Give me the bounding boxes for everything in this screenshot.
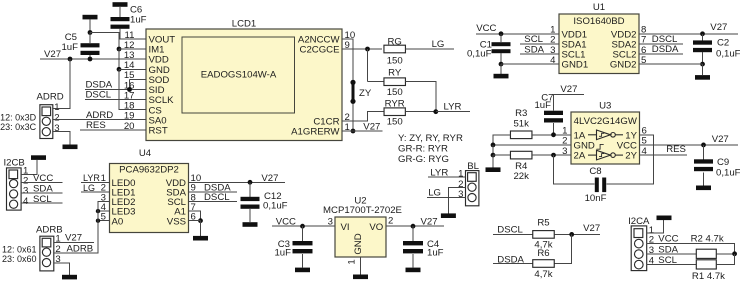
net V27 stub above C7 (554, 84, 585, 111)
wire A1 to VSS (189, 211, 201, 221)
svg-text:2: 2 (54, 113, 59, 124)
net LG wire from RG (406, 39, 455, 50)
net RES wire to pin 20 RST (80, 120, 146, 131)
svg-text:V27: V27 (261, 173, 278, 184)
capacitor C7 1uF (534, 92, 563, 135)
capacitor C4 1uF (403, 226, 444, 259)
svg-text:0,1uF: 0,1uF (467, 49, 492, 60)
net LYR wire (436, 101, 470, 112)
wire gnd vertical (492, 145, 494, 155)
svg-text:LCD1: LCD1 (232, 18, 257, 29)
net LYR wire to BL pin1 (428, 168, 466, 179)
svg-text:MCP1700T-2702E: MCP1700T-2702E (323, 205, 402, 216)
svg-text:R3: R3 (515, 108, 527, 119)
svg-text:RST: RST (149, 126, 168, 137)
capacitor C6 1uF (111, 5, 147, 29)
U4 pin 2 LED1 (101, 183, 136, 199)
label LCD1 (232, 18, 257, 29)
wire pin5 stub (98, 220, 110, 222)
node ZY-V27 junction (351, 129, 356, 134)
svg-text:C2CGCE: C2CGCE (300, 45, 340, 56)
label U1 (593, 2, 605, 13)
U3 pin 1 1A (562, 126, 586, 142)
net DSDA wire to pin 16 SID (85, 80, 146, 91)
wire R3 left down (493, 135, 510, 145)
svg-text:V27: V27 (583, 223, 600, 234)
node VCC-C1 (499, 31, 504, 36)
net SDA wire I2CB pin3 (21, 184, 62, 195)
svg-text:51k: 51k (513, 118, 529, 129)
svg-text:LG: LG (432, 39, 445, 50)
svg-text:1uF: 1uF (130, 15, 147, 26)
net DSCL wire to R5 (493, 224, 533, 235)
schmitt hysteresis symbol middle (597, 144, 604, 149)
label U4 (139, 148, 152, 159)
node on pin 12 IM1 (117, 47, 122, 52)
svg-text:R1 4.7k: R1 4.7k (692, 271, 725, 282)
ground above C5 (83, 15, 98, 20)
resistor R4 22k (493, 151, 532, 182)
svg-text:2A: 2A (574, 151, 586, 162)
wire ADRD pin3 to ground (53, 132, 70, 145)
LCD1 pin 14 GND (124, 60, 170, 76)
capacitor C5 1uF (61, 32, 99, 59)
wire pin15 SOD stub (130, 78, 147, 80)
svg-text:DSCL: DSCL (86, 90, 112, 101)
U4 pin 8 SCL (167, 192, 196, 208)
svg-text:ZY: ZY (359, 88, 372, 99)
svg-text:12: 0x61: 12: 0x61 (2, 244, 37, 254)
wire R4 right to U3 pin3 (532, 154, 571, 156)
node GND2-C2 (700, 62, 705, 67)
net SDA wire to U1 pin3 (520, 44, 559, 55)
net VCC wire to U2 pin3 VI (272, 216, 335, 227)
IC U4 PCA9632DP2 body (110, 164, 189, 233)
LCD1 pin 12 IM1 (124, 40, 165, 56)
U4 pin 6 VSS (167, 212, 196, 228)
ground C4 (406, 254, 421, 272)
node R5-R6-V27 (569, 232, 574, 237)
wire VSS stub (189, 220, 201, 222)
net DSCL wire to pin 17 SCLK (85, 90, 146, 101)
connector I2CA header (628, 216, 655, 271)
jumper ZY (350, 80, 371, 104)
capacitor C3 1uF (274, 226, 312, 259)
connector I2CB header (4, 157, 30, 210)
svg-text:A1GRERW: A1GRERW (291, 127, 340, 138)
ground I2CB (31, 155, 46, 160)
net V27 wire from U2 pin2 VO (386, 216, 444, 228)
net VCC wire I2CA pin2 (647, 234, 735, 254)
svg-text:1uF: 1uF (61, 42, 78, 53)
label U3 (599, 101, 611, 112)
label U2 partnumber (323, 205, 402, 216)
svg-text:1: 1 (54, 102, 59, 113)
wire C1 bottom to GND1 (500, 53, 502, 64)
wire SOD-SID tie (129, 79, 131, 89)
svg-text:U4: U4 (139, 148, 152, 159)
wire I2CB pin1 to ground (21, 160, 37, 174)
U4 pin 9 SDA (166, 183, 196, 199)
wire U1 pin4 GND1 (501, 63, 559, 65)
svg-text:4LVC2G14GW: 4LVC2G14GW (574, 116, 638, 127)
svg-text:10nF: 10nF (585, 193, 607, 204)
svg-text:1uF: 1uF (274, 248, 291, 259)
wire ADRD pin1 to V27 (53, 59, 70, 109)
U3 pin 2 GND (562, 136, 595, 152)
wire BL pin2 to ground (448, 187, 465, 213)
svg-text:0,1uF: 0,1uF (716, 167, 740, 178)
capacitor C8 10nF (585, 166, 607, 204)
svg-text:4,7k: 4,7k (534, 269, 552, 280)
svg-text:LYR: LYR (83, 173, 100, 183)
node RYR-RY junction (405, 109, 438, 114)
U1 pin 1 VDD1 (550, 25, 587, 41)
svg-text:V27: V27 (560, 84, 577, 95)
svg-text:RES: RES (86, 120, 106, 131)
node 2A-C8 junction (551, 153, 556, 158)
capacitor C1 0,1uF (467, 34, 511, 60)
svg-text:A0: A0 (112, 216, 124, 227)
svg-text:V27: V27 (710, 22, 727, 33)
wire pin 9 to RG (342, 48, 382, 50)
wire vertical gnd bus to pin 14 (118, 49, 120, 69)
wire pin4 stub (98, 210, 110, 212)
net V27 rail to pin 13 VDD (40, 49, 146, 60)
wire ADRB bus pins 3 4 5 (98, 202, 110, 253)
LCD1 pin 17 SCLK (124, 90, 174, 106)
wire pin 10 to ZY vertical (342, 39, 353, 131)
net VCC wire I2CB pin2 (21, 173, 62, 184)
resistor RYR 150 (384, 98, 405, 127)
svg-text:3: 3 (328, 216, 333, 227)
svg-text:U3: U3 (599, 101, 611, 112)
svg-text:3: 3 (54, 123, 59, 134)
LCD1 pin 13 VDD (124, 50, 169, 66)
U4 pin 10 VDD (166, 173, 201, 189)
net VCC wire to U1 pin1 (476, 23, 559, 34)
net SCL wire I2CB pin4 (21, 194, 62, 205)
resistor R5 4,7k (533, 218, 555, 251)
net V27 wire ADRB pin1 (54, 232, 94, 243)
ground C12 (243, 209, 258, 227)
U3 pin 3 2A (562, 146, 586, 162)
svg-text:1: 1 (347, 259, 358, 264)
svg-text:4: 4 (23, 196, 29, 207)
LCD1 pin 18 CS (124, 101, 162, 117)
U4 pin 4 LED3 (101, 202, 136, 218)
net V27 wire from U4 VDD (189, 173, 286, 184)
LCD1 pin 10 A2NCCW label (298, 30, 355, 46)
svg-text:150: 150 (387, 117, 403, 128)
svg-text:V27: V27 (712, 134, 729, 145)
net DSDA wire to R6 (493, 254, 533, 265)
net DSCL wire from U4 pin8 (189, 192, 238, 203)
svg-text:I2CB: I2CB (4, 157, 25, 168)
U1 pin 7 SDA2 (611, 35, 646, 51)
svg-text:R5: R5 (537, 218, 549, 229)
U1 pin 2 SDA1 (550, 35, 586, 51)
svg-text:150: 150 (387, 87, 403, 98)
wire pin12 IM1 stub (119, 48, 146, 50)
wire R3 right to U3 pin1 (532, 134, 571, 136)
svg-text:150: 150 (387, 56, 403, 67)
label ADRB addresses (2, 244, 37, 264)
connector ADRB header (36, 224, 63, 271)
IC U2 MCP1700T-2702E body (335, 217, 386, 257)
node ADRB-pin5 (96, 219, 100, 223)
node V27-ADRD riser (68, 57, 73, 62)
U3 pin 4 2Y (625, 146, 647, 162)
IC U1 ISO1640BD body (559, 14, 639, 74)
wire vertical gnd bus to pin 18 CS (119, 69, 146, 109)
svg-text:C2: C2 (717, 38, 729, 49)
label ADRD addresses (0, 113, 37, 132)
node gnd-R3R4 1 (491, 143, 496, 148)
wire RY branch vertical (367, 49, 369, 82)
svg-text:V27: V27 (421, 216, 438, 227)
wire R1 right to VCC (716, 254, 734, 265)
svg-text:RG: RG (388, 36, 402, 47)
node V27-C2 (700, 31, 705, 36)
svg-text:VO: VO (369, 222, 383, 233)
net DSDA wire from U4 pin9 (189, 182, 238, 193)
resistor R3 51k (510, 108, 532, 139)
U3 pin 6 1Y (625, 126, 647, 142)
U3 pin 5 VCC (617, 136, 647, 152)
label U2 (354, 196, 366, 207)
node gnd-R3R4 2 (491, 153, 496, 158)
svg-text:22k: 22k (513, 171, 529, 182)
svg-text:VSS: VSS (167, 216, 186, 227)
capacitor C9 0,1uF (694, 145, 740, 178)
node A1-VSS (198, 218, 203, 223)
ground ADRB (62, 275, 77, 280)
U4 pin 3 LED2 (101, 192, 136, 208)
node C5 top junction (88, 30, 93, 35)
svg-text:Y: ZY, RY, RYR: Y: ZY, RY, RYR (398, 133, 463, 144)
svg-text:EADOGS104W-A: EADOGS104W-A (201, 70, 277, 81)
LCD1 pin 16 SID (124, 80, 165, 96)
node VCC-C3 (300, 224, 305, 229)
resistor R6 4,7k (533, 248, 555, 280)
U1 pin 6 SCL2 (613, 45, 647, 61)
ground above C6 (113, 2, 128, 7)
wire C8 to 1Y (607, 135, 654, 184)
LCD1 pin 9 C2CGCE label (300, 40, 350, 56)
svg-text:RY: RY (388, 67, 402, 78)
ground I2CA (657, 216, 672, 221)
svg-text:I2CA: I2CA (628, 216, 650, 227)
IC LCD1 EADOGS104W-A body (146, 29, 342, 141)
ground U4 VSS (193, 221, 208, 241)
U4 pin 1 LED0 (101, 173, 136, 189)
wire C2 bottom to GND2 (702, 52, 704, 64)
ground ADRD (63, 145, 78, 150)
U1 pin 3 SCL1 (550, 45, 585, 61)
svg-text:1uF: 1uF (534, 100, 551, 111)
wire 2A to C8 (554, 155, 595, 184)
svg-text:DSCL: DSCL (497, 224, 523, 235)
node V27-C4 (411, 224, 416, 229)
ground U2 (353, 275, 368, 280)
svg-text:RYR: RYR (385, 98, 405, 109)
svg-text:23: 0x60: 23: 0x60 (2, 254, 37, 264)
net DSDA wire from U1 pin6 (639, 44, 683, 55)
wire ADRB pin3 to ground (54, 263, 70, 275)
svg-text:LG: LG (83, 183, 95, 193)
svg-text:VCC: VCC (276, 216, 296, 227)
ground R3 R4 (486, 155, 501, 172)
svg-text:23: 0x3C: 23: 0x3C (0, 122, 37, 132)
svg-text:VI: VI (341, 222, 350, 233)
node V27-C5 (88, 57, 93, 62)
svg-text:U1: U1 (593, 2, 605, 13)
svg-text:LG: LG (428, 188, 441, 199)
svg-text:VCC: VCC (476, 23, 496, 34)
resistor R1 4.7k (692, 260, 725, 282)
resistor R2 4.7k (691, 234, 724, 259)
ground U1 C1 (494, 64, 509, 78)
connector BL header (458, 161, 479, 206)
wire C6 to LCD1 pin 11 VOUT (120, 29, 146, 39)
wire V27 down to R6 (554, 234, 571, 263)
wire C5 gnd to node (89, 19, 91, 32)
capacitor C2 0,1uF (693, 34, 740, 60)
node pin9-RY branch (365, 47, 370, 52)
connector ADRD header (37, 92, 64, 139)
wire U3 pin2 GND (493, 144, 571, 146)
net SCL wire to U1 pin2 (520, 34, 559, 45)
svg-text:V27: V27 (363, 121, 380, 132)
svg-text:R2 4.7k: R2 4.7k (691, 234, 724, 245)
node on pin 14 GND (117, 67, 122, 72)
svg-text:V27: V27 (65, 232, 82, 243)
svg-text:3: 3 (458, 189, 463, 200)
net DSCL wire from U1 pin7 (639, 34, 683, 45)
ground BL (441, 213, 456, 218)
svg-text:R6: R6 (537, 248, 549, 259)
LCD1 pin 15 SOD (124, 70, 170, 86)
LCD1 pin 20 RST (124, 121, 168, 137)
wire RY to LYR node (406, 82, 436, 112)
svg-text:GND2: GND2 (610, 60, 637, 71)
net LG wire to BL pin3 (427, 188, 466, 199)
capacitor C12 0,1uF (241, 182, 288, 211)
U1 pin 5 GND2 (610, 55, 647, 71)
resistor RY 150 (368, 67, 406, 98)
ground C3 (295, 254, 310, 272)
svg-text:GND: GND (353, 233, 364, 254)
IC U3 4LVC2G14GW body (571, 112, 640, 164)
svg-text:DSDA: DSDA (652, 44, 679, 55)
svg-text:RES: RES (666, 144, 686, 155)
net LG wire to U4 pin2 (81, 183, 110, 193)
svg-text:GR-G: RYG: GR-G: RYG (398, 154, 449, 165)
svg-text:0,1uF: 0,1uF (263, 200, 288, 211)
wire R2 right to VCC (716, 253, 734, 255)
net SDA wire I2CA pin3 (647, 244, 697, 255)
U4 pin 7 A1 (174, 202, 196, 218)
ground C9 (696, 172, 711, 190)
wire gnd node to IM1/GND/CS vertical (90, 33, 119, 50)
ground U1 C2 (695, 64, 710, 80)
inverter symbol 2 inside U3 (588, 150, 623, 160)
node ADRB-pin4 (96, 209, 100, 213)
net V27 wire from U3 VCC (640, 134, 739, 145)
LCD1 pin 2 C1CR label (313, 112, 349, 128)
U1 pin 4 GND1 (550, 55, 588, 71)
svg-text:ISO1640BD: ISO1640BD (573, 16, 624, 27)
inverter symbol 1 inside U3 (588, 130, 623, 140)
wire U1 pin5 GND2 (639, 63, 703, 65)
U1 pin 8 VDD2 (611, 25, 646, 41)
net V27 wire from U1 pin8 (639, 22, 738, 34)
net V27 at LCD pin 1 (342, 121, 383, 132)
svg-text:LYR: LYR (444, 101, 462, 112)
LCD1 pin 19 SA0 (124, 111, 167, 127)
node GND1-C1 (499, 62, 504, 67)
node C7-R3-1A junction (551, 132, 556, 137)
svg-text:2: 2 (388, 216, 393, 227)
svg-text:2Y: 2Y (625, 151, 637, 162)
net ADRB wire pin2 to U4 (54, 202, 98, 255)
resistor RG 150 (384, 36, 406, 66)
U4 pin 5 A0 (101, 212, 124, 228)
note jumper legend (398, 133, 463, 165)
LCD1 pin 11 VOUT (125, 30, 176, 46)
svg-text:C8: C8 (589, 166, 601, 177)
wire I2CA pin1 to ground (647, 220, 664, 233)
node V27-C9 (701, 143, 706, 148)
node V27-C12 (248, 180, 253, 185)
node SOD/SID junction (127, 87, 132, 92)
wire pin14 GND stub (119, 68, 146, 70)
net ADRD wire pin2 to SA0 (53, 110, 146, 121)
net SCL wire I2CA pin4 (647, 255, 697, 266)
wire pin 2 to RYR (342, 112, 384, 121)
net LYR wire to U4 pin1 (81, 173, 110, 183)
wire U2 pin1 GND to ground (347, 257, 361, 275)
LCD1 pin 1 A1GRERW label (291, 122, 350, 138)
svg-text:GND1: GND1 (562, 60, 589, 71)
svg-text:ADRD: ADRD (37, 92, 64, 103)
node R2-VCC (732, 251, 737, 256)
svg-text:PCA9632DP2: PCA9632DP2 (119, 165, 179, 176)
svg-text:0,1uF: 0,1uF (716, 49, 740, 60)
svg-text:1uF: 1uF (427, 248, 444, 259)
net RES wire from U3 pin4 2Y (640, 144, 688, 155)
wire R5 to V27 (554, 223, 600, 234)
